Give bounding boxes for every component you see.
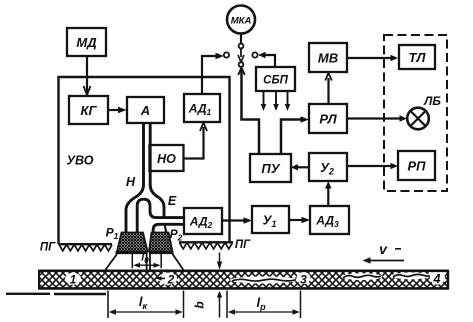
crack 4 lenses: [342, 271, 446, 285]
wire U2 to PU: [291, 164, 310, 170]
svg-text:А: А: [140, 103, 150, 118]
svg-text:1: 1: [70, 273, 77, 287]
svg-text:ПУ: ПУ: [261, 161, 280, 176]
wire KG to A: [108, 107, 127, 113]
dashed cabinet: [384, 35, 447, 191]
contact circle right: [252, 52, 257, 57]
wire AD1 to contact: [202, 53, 224, 94]
svg-text:КГ: КГ: [81, 103, 98, 118]
block MV: [309, 43, 347, 72]
svg-text:Н: Н: [126, 175, 136, 189]
wire AD3 to U2: [325, 181, 332, 206]
dimension l0: [132, 253, 161, 269]
svg-text:УВО: УВО: [67, 154, 94, 168]
block SBP: [256, 67, 295, 91]
block AD1: [184, 94, 220, 122]
svg-text:РП: РП: [407, 159, 426, 174]
bar shadow dashes: [6, 293, 106, 296]
arrow to label 2: [156, 276, 165, 280]
specimen bar crosshatch: [39, 272, 448, 289]
svg-text:v: v: [379, 241, 388, 257]
svg-text:НО: НО: [157, 152, 176, 166]
waveguide H left wall: [126, 123, 144, 233]
block NO: [150, 145, 184, 171]
dimension b arrows: [217, 253, 222, 318]
crack 3 lens: [230, 272, 311, 284]
wire SBP to right contact: [258, 52, 275, 67]
wire meter line down to bus: [238, 68, 245, 120]
bar top edge: [39, 269, 448, 272]
block TL: [399, 45, 435, 69]
svg-text:ТЛ: ТЛ: [409, 50, 427, 65]
transducer P2 body: [149, 233, 174, 253]
velocity arrow v: [363, 249, 405, 264]
svg-text:ПГ: ПГ: [235, 239, 251, 251]
contact circle left: [224, 52, 229, 57]
waveguide inner arch and tube E top: [137, 199, 184, 232]
block RL: [309, 104, 347, 133]
bar left end: [38, 270, 40, 290]
svg-text:b: b: [193, 301, 207, 308]
dimension lk: [108, 291, 184, 319]
svg-text:3: 3: [300, 273, 307, 287]
coupling wedge P1: [105, 254, 146, 270]
crack 4 centerlines: [343, 274, 430, 277]
meter MKA: [227, 6, 255, 44]
svg-text:4: 4: [433, 272, 441, 286]
wire MV to TL: [347, 55, 398, 61]
SBP output arrows: [261, 91, 291, 111]
tube E bottom and P2 channel: [153, 224, 184, 232]
wire AD2 to U1: [222, 217, 252, 223]
block AD3: [310, 206, 349, 234]
lamp LB: [407, 108, 429, 130]
transducer P1 body: [116, 233, 148, 253]
coupling wedge P2: [150, 254, 184, 270]
dimension lp: [227, 291, 301, 319]
block MD: [67, 28, 106, 56]
crack patch 2: [159, 273, 177, 285]
block PU: [250, 154, 291, 182]
svg-text:МД: МД: [76, 35, 97, 50]
bus wire to PU input 1: [240, 120, 259, 155]
svg-text:Е: Е: [168, 194, 177, 208]
bus wire PU input 2 and to RL: [281, 116, 309, 154]
waveguide H right wall: [150, 123, 164, 219]
svg-text:РЛ: РЛ: [319, 112, 337, 127]
contact circle bottom: [239, 62, 244, 67]
svg-text:ЛБ: ЛБ: [423, 94, 441, 108]
svg-text:ПГ: ПГ: [40, 242, 56, 254]
block KG: [69, 96, 108, 124]
svg-text:МВ: МВ: [318, 51, 338, 66]
wire NO to AD1: [184, 123, 208, 159]
contact circle top: [239, 44, 244, 49]
svg-text:МКА: МКА: [231, 16, 252, 27]
wire U1 to AD3: [289, 217, 310, 223]
block RP: [398, 151, 435, 180]
wire RL to lamp: [347, 115, 407, 121]
wire RL to MV: [325, 73, 332, 104]
svg-text:2: 2: [167, 273, 175, 287]
block A: [127, 97, 164, 123]
bar right end: [447, 270, 449, 290]
block U1: [252, 206, 289, 233]
wire U2 to RP: [347, 163, 398, 169]
bar bottom edge: [39, 287, 448, 290]
svg-text:СБП: СБП: [263, 75, 288, 87]
crack patch 1: [65, 273, 81, 285]
crack 3 centerline: [232, 279, 296, 281]
ground hatch right PG: [179, 242, 233, 249]
box UVO enclosure: [59, 77, 230, 244]
ground hatch left PG: [59, 244, 113, 251]
contact arrow down: [238, 49, 244, 63]
block AD2: [184, 208, 222, 234]
block U2: [309, 153, 347, 181]
wire MD to KG: [84, 56, 91, 95]
